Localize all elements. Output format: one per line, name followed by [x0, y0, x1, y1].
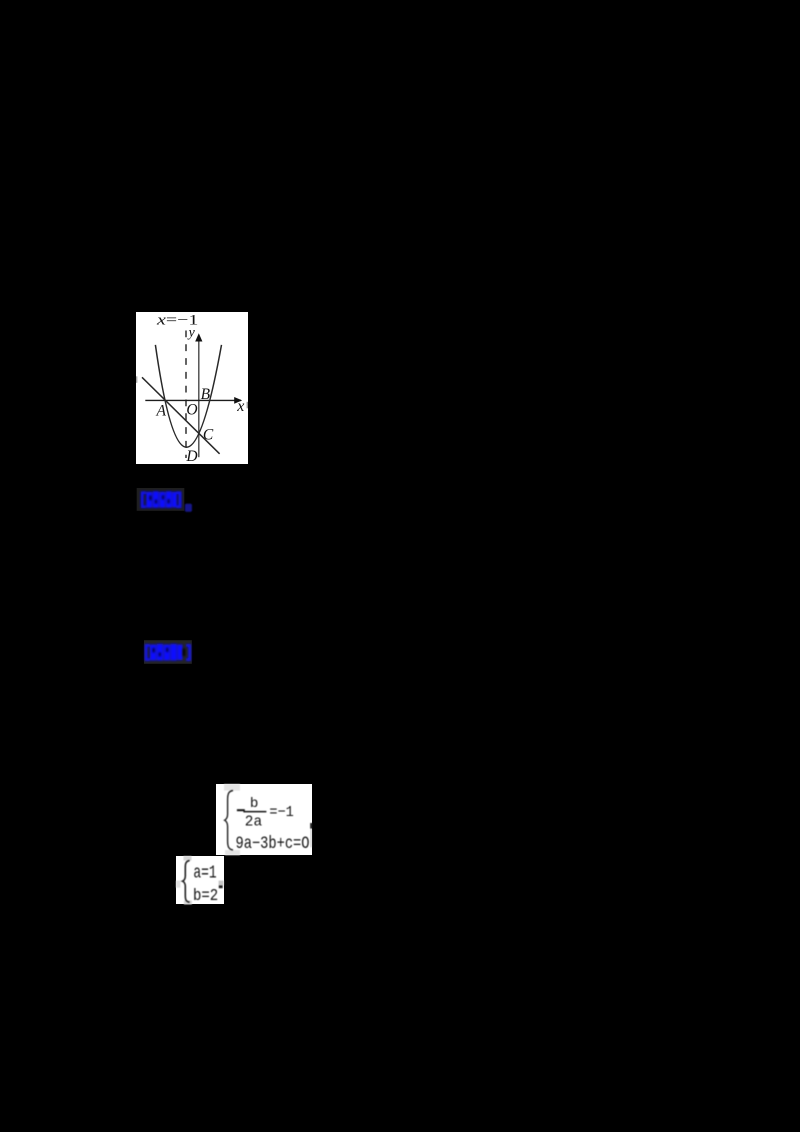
equation system 1: [216, 784, 312, 855]
y axis arrowhead: [195, 333, 202, 341]
edge tick left: [136, 376, 137, 383]
figure: parabola graph box: [136, 312, 248, 465]
fraction bar: [243, 811, 266, 813]
svg-text:2a: 2a: [244, 815, 262, 831]
artifact patches: [224, 784, 240, 791]
x axis arrowhead: [234, 397, 242, 404]
big left brace: [224, 791, 232, 851]
svg-text:x: x: [236, 397, 244, 414]
artifact patches: [184, 856, 192, 861]
svg-text:9a−3b+c=O: 9a−3b+c=O: [235, 835, 309, 854]
svg-text:b: b: [250, 796, 259, 812]
svg-text:a=1: a=1: [194, 863, 217, 883]
dashed axis of symmetry x=-1: [185, 330, 187, 458]
y axis: [198, 340, 200, 457]
text cursor after 0: [310, 829, 311, 847]
svg-text:b=2: b=2: [193, 887, 218, 905]
secant line through A and C: [142, 377, 220, 454]
svg-text:=−1: =−1: [269, 804, 293, 821]
svg-text:O: O: [186, 401, 197, 418]
svg-text:A: A: [156, 402, 167, 419]
blue heading 2: [142, 638, 200, 667]
comma at right edge: [310, 823, 312, 829]
equation system 2: [176, 856, 224, 905]
left brace: [183, 860, 190, 902]
x axis: [145, 399, 241, 401]
svg-text:B: B: [201, 385, 211, 402]
minus before fraction: [237, 809, 245, 811]
blue heading 1: [136, 487, 196, 514]
period dot: [219, 885, 223, 888]
edge tick right: [247, 401, 248, 408]
svg-text:C: C: [203, 426, 214, 443]
parabola: [155, 344, 221, 446]
blue period: [185, 504, 192, 512]
svg-text:D: D: [185, 448, 197, 465]
svg-text:y: y: [187, 324, 196, 339]
